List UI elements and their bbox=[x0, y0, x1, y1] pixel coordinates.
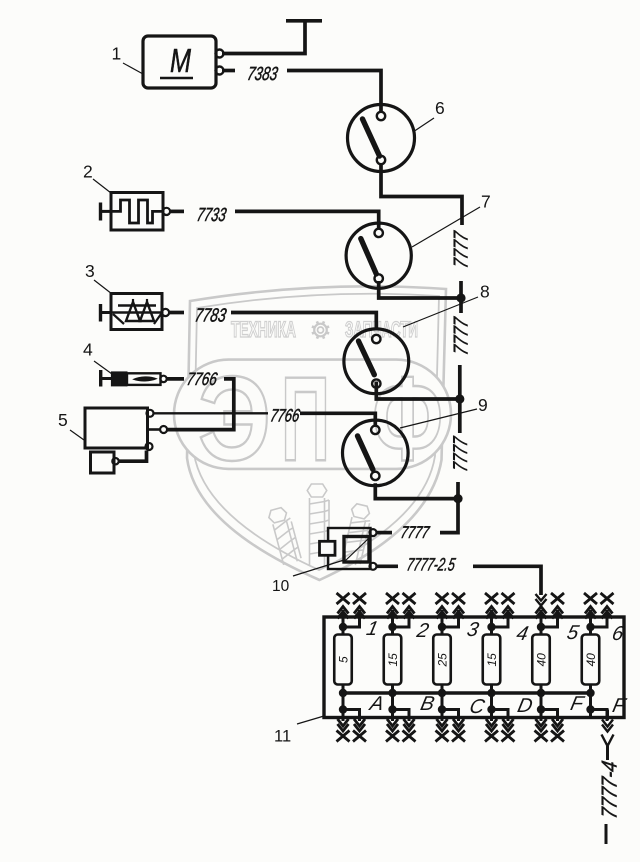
svg-text:7766: 7766 bbox=[185, 369, 219, 389]
svg-text:9: 9 bbox=[478, 395, 488, 415]
svg-text:3: 3 bbox=[85, 261, 95, 281]
svg-text:15: 15 bbox=[386, 653, 400, 667]
svg-text:6: 6 bbox=[435, 98, 445, 118]
svg-text:40: 40 bbox=[535, 653, 549, 667]
svg-text:7766: 7766 bbox=[269, 406, 302, 426]
svg-text:ТЕХНИКА: ТЕХНИКА bbox=[231, 317, 296, 342]
svg-text:7383: 7383 bbox=[246, 64, 280, 85]
svg-text:7777: 7777 bbox=[451, 315, 473, 357]
svg-text:25: 25 bbox=[436, 653, 450, 668]
svg-text:7783: 7783 bbox=[193, 306, 228, 327]
svg-text:7777: 7777 bbox=[450, 435, 472, 473]
svg-text:7777: 7777 bbox=[451, 229, 473, 269]
svg-text:4: 4 bbox=[83, 340, 93, 360]
svg-text:11: 11 bbox=[274, 728, 291, 746]
svg-text:7777-4: 7777-4 bbox=[597, 759, 622, 820]
svg-text:M: M bbox=[170, 42, 191, 79]
svg-text:7: 7 bbox=[481, 192, 491, 212]
svg-text:5: 5 bbox=[58, 410, 68, 430]
svg-text:2: 2 bbox=[83, 162, 93, 182]
svg-text:10: 10 bbox=[272, 578, 290, 595]
svg-text:8: 8 bbox=[480, 282, 490, 302]
svg-text:15: 15 bbox=[485, 653, 499, 667]
svg-text:7777: 7777 bbox=[399, 522, 432, 542]
svg-text:1: 1 bbox=[112, 44, 122, 64]
svg-text:7733: 7733 bbox=[195, 205, 228, 226]
svg-text:5: 5 bbox=[337, 656, 351, 663]
svg-text:40: 40 bbox=[584, 653, 598, 667]
svg-text:7777-2.5: 7777-2.5 bbox=[405, 555, 457, 575]
